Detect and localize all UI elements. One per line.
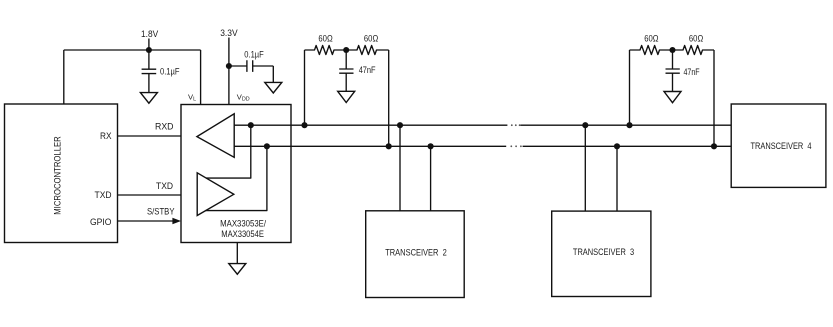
arrowhead S/STBY (172, 218, 181, 225)
capacitor C4 47nF (666, 50, 680, 92)
svg-text:60Ω: 60Ω (318, 33, 332, 43)
wire left termination CANH leg (304, 50, 306, 125)
svg-text:60Ω: 60Ω (644, 33, 658, 43)
driver buffer (197, 173, 234, 216)
svg-text:0.1µF: 0.1µF (244, 49, 264, 59)
resistor R3 60ohm (630, 46, 673, 55)
svg-text:MAX33053E/: MAX33053E/ (220, 218, 266, 228)
wire CANL bus (234, 145, 731, 147)
svg-text:RXD: RXD (155, 121, 174, 131)
ground C2 (265, 82, 282, 93)
ground chip (229, 264, 246, 275)
svg-text:S/STBY: S/STBY (147, 207, 175, 217)
wire transceiver2 CANH tap (399, 125, 401, 211)
junction dot driver CANH (248, 122, 254, 128)
resistor R1 60ohm (305, 46, 347, 55)
wire 1.8V rail (64, 49, 201, 51)
transceiver 2 box (366, 211, 465, 298)
transceiver chip U1 box (181, 105, 291, 243)
svg-text:TXD: TXD (95, 190, 112, 200)
svg-text:47nF: 47nF (359, 65, 376, 75)
wire 1.8V to VL pin (200, 50, 202, 105)
svg-text:3.3V: 3.3V (220, 28, 238, 38)
svg-text:0.1µF: 0.1µF (160, 66, 180, 76)
svg-text:1.8V: 1.8V (141, 29, 159, 39)
svg-text:MICROCONTROLLER: MICROCONTROLLER (53, 136, 63, 215)
wire driver output to CANL (206, 146, 267, 210)
svg-text:TRANSCEIVER 2: TRANSCEIVER 2 (385, 247, 447, 257)
resistor R2 60ohm (346, 46, 389, 55)
wire S/STBY (GPIO to transceiver) (118, 220, 174, 222)
capacitor C1 0.1uF (142, 50, 157, 93)
ground C1 (140, 93, 157, 104)
svg-text:60Ω: 60Ω (689, 33, 703, 43)
junction dot right termination CANL (711, 143, 717, 149)
junction dot transceiver3 CANH (582, 122, 588, 128)
wire transceiver3 CANL tap (616, 146, 618, 211)
transceiver 3 box (552, 211, 651, 296)
wire transceiver3 CANH tap (584, 125, 586, 211)
junction dot driver CANL (264, 143, 270, 149)
junction dot transceiver2 CANH (397, 122, 403, 128)
bus break CANL (510, 145, 521, 147)
capacitor C3 47nF (339, 50, 353, 91)
ground C4 (664, 92, 681, 103)
svg-text:VL: VL (188, 92, 196, 102)
wire left termination CANL leg (388, 50, 390, 146)
junction dot 1.8V (146, 47, 152, 53)
junction dot transceiver3 CANL (614, 143, 620, 149)
junction dot 3.3V (226, 63, 232, 69)
svg-text:47nF: 47nF (684, 67, 700, 77)
wire right termination CANH leg (629, 50, 631, 125)
wire CANH bus (234, 124, 731, 126)
wire chip ground (236, 243, 238, 264)
wire driver output to CANH (206, 125, 251, 178)
wire transceiver2 CANL tap (430, 146, 432, 211)
bus break CANH (511, 124, 521, 126)
svg-text:GPIO: GPIO (90, 217, 112, 227)
svg-text:TXD: TXD (156, 181, 173, 191)
svg-text:TRANSCEIVER 4: TRANSCEIVER 4 (751, 141, 812, 151)
svg-text:TRANSCEIVER 3: TRANSCEIVER 3 (573, 247, 634, 257)
junction dot left termination CANL (386, 143, 392, 149)
microcontroller box (5, 104, 118, 243)
wire 1.8V stub (148, 39, 150, 51)
svg-text:VDD: VDD (237, 92, 250, 102)
svg-text:60Ω: 60Ω (364, 33, 378, 43)
ground C3 (338, 91, 355, 102)
svg-text:RX: RX (100, 131, 112, 141)
svg-text:MAX33054E: MAX33054E (221, 229, 264, 239)
resistor R4 60ohm (673, 46, 715, 55)
transceiver 4 box (731, 104, 826, 187)
junction dot R1-R2 (343, 47, 349, 53)
capacitor C2 0.1uF (229, 60, 273, 82)
junction dot left termination CANH (301, 122, 307, 128)
wire TXD (microcontroller to driver input) (118, 194, 198, 196)
wire 3.3V to VDD pin (228, 38, 230, 105)
receiver buffer (197, 114, 234, 158)
junction dot R3-R4 (669, 47, 675, 53)
junction dot right termination CANH (626, 122, 632, 128)
wire 1.8V to microcontroller top (63, 50, 65, 104)
junction dot transceiver2 CANL (428, 143, 434, 149)
wire RXD (microcontroller RX to receiver output) (118, 135, 198, 137)
wire right termination CANL leg (713, 50, 715, 146)
